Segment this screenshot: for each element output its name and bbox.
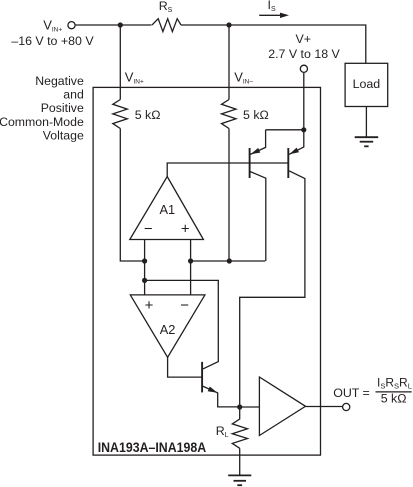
svg-text:and: and [63,88,84,102]
wire node A rail (A1- / A2+) [144,240,146,295]
wire VIN+ column lower [120,129,144,262]
node dot A1- [142,258,147,263]
node dot A2+ [142,278,147,283]
transistor Q2 base bar [287,148,289,178]
svg-text:A2: A2 [160,322,176,337]
svg-text:VIN+: VIN+ [125,70,144,86]
svg-text:5 kΩ: 5 kΩ [135,108,161,122]
transistor Q3 emitter [202,386,239,407]
resistor RL [232,407,247,448]
svg-text:5 kΩ: 5 kΩ [381,392,407,406]
svg-text:VIN–: VIN– [234,70,253,86]
op-amp A2 [130,295,205,357]
current arrow IS [259,14,281,16]
svg-text:5 kΩ: 5 kΩ [243,108,269,122]
wire node B rail (A1+ / A2-) [190,240,192,295]
svg-text:VIN+: VIN+ [43,17,62,33]
transistor Q1 collector [250,172,265,261]
node junction top VIN- [226,22,231,27]
terminal V+ [300,65,307,72]
svg-text:A1: A1 [159,202,175,217]
svg-text:2.7 V to 18 V: 2.7 V to 18 V [268,47,340,61]
transistor Q1 emitter [250,130,303,155]
svg-text:Common-Mode: Common-Mode [0,115,84,129]
terminal OUT [343,403,350,410]
node junction top VIN+ [118,22,123,27]
resistor RS [152,19,181,32]
wire top rail right to Load [181,25,366,63]
wire node A to Q3 collector [145,280,219,369]
svg-text:+: + [181,220,190,237]
resistor 5k left [113,100,128,129]
svg-text:ISRSRL: ISRSRL [377,375,412,390]
svg-text:Load: Load [353,77,381,91]
transistor Q2 collector [240,171,305,407]
svg-text:Voltage: Voltage [43,129,84,143]
svg-text:IS: IS [268,0,276,13]
svg-text:INA193A–INA198A: INA193A–INA198A [98,439,207,455]
wire V+ supply column [303,73,305,130]
wire node B horizontal [191,260,266,262]
wire A2 output to Q3 base [168,357,203,377]
svg-text:Positive: Positive [41,101,84,115]
node dot A1+ [188,258,193,263]
op-amp output buffer [259,377,305,436]
node V+ emitters junction [301,127,306,132]
svg-text:Negative: Negative [35,74,84,88]
wire Load to ground [365,107,367,138]
wire buffer output [306,406,343,408]
svg-text:–16 V to +80 V: –16 V to +80 V [11,34,94,48]
svg-text:−: − [144,221,153,238]
wire A1 output to base rail [167,163,288,177]
svg-text:+: + [145,297,154,314]
op-amp A1 [130,177,204,240]
IC boundary box [93,87,320,455]
svg-text:OUT =: OUT = [333,386,370,400]
wire VIN- column upper [228,25,230,100]
svg-text:V+: V+ [296,32,312,46]
svg-text:RS: RS [159,0,173,14]
ground load [355,137,379,146]
wire VIN+ column upper [119,25,121,100]
wire RL to ground [239,448,241,475]
wire buffer input [240,406,260,408]
transistor Q2 emitter [289,130,304,155]
transistor Q1 base bar [249,148,251,178]
transistor Q3 base bar [201,362,203,393]
wire top rail left [75,24,151,26]
terminal VIN+ [68,22,75,29]
resistor 5k right [222,100,237,129]
node dot output summing [237,404,242,409]
ground RL [228,475,251,485]
node dot VIN- bottom [227,258,232,263]
Load box [345,63,388,106]
wire VIN- column lower [228,129,230,262]
svg-text:RL: RL [216,424,229,439]
svg-text:−: − [180,297,189,314]
